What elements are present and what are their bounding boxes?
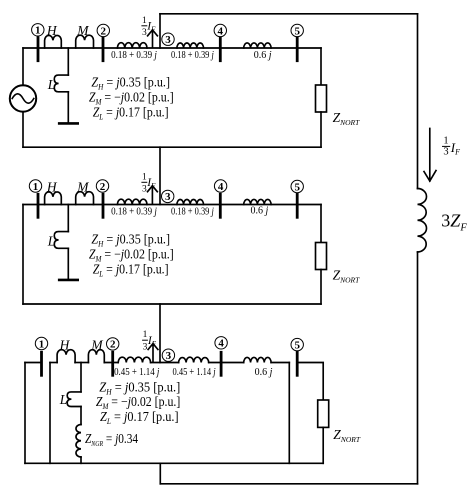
- bus bar node 1: [37, 38, 40, 61]
- wire right rail lower: [417, 252, 419, 484]
- wire node4 segment: [209, 362, 244, 364]
- generator G1: [10, 85, 36, 111]
- svg-text:1: 1: [443, 136, 448, 147]
- svg-text:2: 2: [110, 339, 116, 351]
- wire fault tap riser (node 3 to top rail): [159, 14, 161, 48]
- bus bar node 5: [296, 38, 299, 61]
- svg-text:1: 1: [142, 16, 147, 26]
- svg-text:2: 2: [101, 25, 107, 37]
- inductor line 2-3 (0.18+0.39j): [117, 43, 147, 48]
- svg-text:5: 5: [294, 25, 300, 37]
- node label circle 5 (bot): [291, 338, 303, 350]
- svg-text:ZL = j0.17 [p.u.]: ZL = j0.17 [p.u.]: [93, 105, 169, 122]
- svg-text:3: 3: [165, 34, 171, 46]
- svg-text:L: L: [47, 77, 56, 92]
- wire Znort to bottom rail: [320, 112, 322, 147]
- resistor Znort (top): [316, 85, 327, 112]
- node label circle 5 (mid): [291, 180, 303, 192]
- wire L to NGR: [80, 407, 82, 425]
- wire to H winding: [50, 362, 57, 364]
- svg-text:0.18 + 0.39 j: 0.18 + 0.39 j: [171, 206, 214, 217]
- svg-text:3: 3: [142, 184, 147, 194]
- wire middle bottom rail: [23, 303, 321, 305]
- resistor Znort (bot): [318, 400, 329, 427]
- arrow 1/3 If (mid, up): [148, 186, 158, 204]
- arrow 1/3 If (top, up): [148, 30, 158, 47]
- wire outer bottom rail: [160, 483, 417, 485]
- wire right delta drop to reference: [288, 363, 290, 464]
- wire H-M junction drop: [67, 48, 69, 75]
- svg-text:1: 1: [39, 338, 45, 350]
- node label circle 2 (bot): [107, 338, 119, 350]
- svg-text:ZL = j0.17 [p.u.]: ZL = j0.17 [p.u.]: [100, 409, 179, 426]
- wire top main bus line: [23, 47, 321, 49]
- inductor 3Zf coil: [418, 189, 427, 253]
- wire top rail: [160, 13, 418, 15]
- svg-text:0.18 + 0.39 j: 0.18 + 0.39 j: [171, 50, 214, 61]
- node label circle 5 (top): [291, 24, 303, 36]
- svg-text:M: M: [90, 338, 103, 353]
- inductor line 3-4 (0.45+1.14j): [179, 357, 209, 362]
- wire bottom reference rail: [25, 462, 323, 464]
- inductor line 2-3 (0.18+0.39j) (mid): [117, 199, 147, 204]
- wire interconnect middle-to-bottom: [159, 304, 161, 363]
- svg-text:0.6 j: 0.6 j: [254, 50, 272, 61]
- svg-text:3: 3: [165, 191, 171, 203]
- svg-text:4: 4: [218, 338, 224, 350]
- svg-text:M: M: [76, 23, 89, 38]
- bus bar node 2 (bot): [111, 352, 114, 375]
- winding H (top): [45, 35, 62, 48]
- winding H (bot): [57, 350, 75, 363]
- wire L junction drop (bot): [80, 363, 82, 392]
- wire L to ground (mid): [67, 248, 69, 280]
- bus bar node 5 (mid): [296, 194, 299, 217]
- wire bus1 stub: [25, 362, 42, 364]
- wire Znort to reference rail (bot): [322, 427, 324, 463]
- node label circle 2 (top): [97, 24, 109, 36]
- wire interconnect top-to-middle: [159, 147, 161, 204]
- winding M (mid): [76, 192, 94, 205]
- node label circle 3 (bot): [162, 349, 174, 361]
- wire 0.6j to delta drop: [271, 362, 289, 364]
- bus bar node 2 (mid): [102, 194, 105, 217]
- inductor line 3-4 (0.18+0.39j) (mid): [177, 199, 204, 204]
- ground (top network): [59, 122, 77, 125]
- winding M (top): [76, 35, 94, 48]
- wire generator top lead: [22, 48, 24, 85]
- wire M to bus 2: [104, 362, 118, 364]
- bus bar node 1 (mid): [37, 194, 40, 217]
- svg-text:4: 4: [218, 181, 224, 193]
- svg-text:3: 3: [142, 28, 147, 38]
- node label circle 1 (top): [32, 24, 44, 36]
- node label circle 3 (mid): [162, 190, 174, 202]
- wire node5 to Znort (mid): [320, 205, 322, 243]
- svg-text:L: L: [47, 234, 56, 249]
- wire H-M junction drop (mid): [67, 205, 69, 232]
- winding L (bot): [67, 392, 81, 407]
- node label circle 4 (mid): [214, 180, 226, 192]
- inductor line 3-4 (0.18+0.39j): [177, 43, 204, 48]
- svg-text:1: 1: [142, 172, 147, 182]
- svg-text:L: L: [59, 392, 68, 407]
- svg-text:1: 1: [143, 330, 148, 340]
- arrow 1/3 If (fault, down): [424, 129, 436, 182]
- inductor 4-5 (0.6j): [244, 43, 271, 48]
- wire delta drop (H side to reference): [49, 363, 51, 464]
- wire Znort to bottom rail (mid): [320, 270, 322, 305]
- svg-text:H: H: [59, 338, 71, 353]
- bus bar node 4: [219, 38, 222, 61]
- inductor 4-5 (0.6j) (mid): [244, 199, 271, 204]
- generator sine wave: [12, 94, 34, 103]
- svg-text:3: 3: [443, 146, 448, 157]
- svg-text:3: 3: [143, 342, 148, 352]
- wire node5 to Znort (bot): [297, 363, 323, 401]
- wire bottom left drop: [24, 363, 26, 464]
- svg-text:0.6 j: 0.6 j: [255, 367, 273, 378]
- svg-text:ZL = j0.17 [p.u.]: ZL = j0.17 [p.u.]: [93, 261, 169, 278]
- bus bar node 1 (bot): [40, 352, 43, 375]
- winding H (mid): [45, 192, 62, 205]
- winding M (bot): [88, 350, 104, 363]
- wire H to M segment: [75, 362, 88, 364]
- node label circle 1 (bot): [35, 337, 47, 349]
- bus bar node 5 (bot): [296, 352, 299, 375]
- svg-text:3: 3: [166, 350, 172, 362]
- wire NGR to reference rail: [80, 457, 82, 463]
- node label circle 4 (bot): [215, 337, 227, 349]
- wire generator bottom lead: [22, 112, 24, 148]
- svg-text:H: H: [46, 23, 58, 38]
- arrow 1/3 If (bot, up): [148, 344, 158, 362]
- svg-text:0.18 + 0.39 j: 0.18 + 0.39 j: [111, 50, 157, 61]
- svg-text:M: M: [76, 180, 89, 195]
- winding L (mid): [54, 232, 68, 249]
- svg-text:5: 5: [294, 339, 300, 351]
- wire coil1 to coil2 through node 3: [151, 362, 179, 364]
- svg-text:5: 5: [294, 181, 300, 193]
- bus bar node 4 (bot): [220, 352, 223, 375]
- svg-text:0.6 j: 0.6 j: [251, 206, 269, 217]
- inductor Zngr coil: [76, 425, 81, 458]
- wire right rail upper: [417, 14, 419, 189]
- wire step to outer rail: [159, 463, 161, 484]
- svg-text:0.45 + 1.14 j: 0.45 + 1.14 j: [114, 367, 159, 378]
- svg-text:2: 2: [100, 181, 106, 193]
- node label circle 3 (top): [162, 33, 174, 45]
- inductor 4-5 (0.6j) (bot): [244, 357, 271, 362]
- bus bar node 2: [102, 38, 105, 61]
- wire top network bottom rail: [23, 146, 321, 148]
- wire node5 to Znort: [320, 48, 322, 85]
- svg-text:4: 4: [218, 25, 224, 37]
- svg-text:0.45 + 1.14 j: 0.45 + 1.14 j: [173, 367, 216, 378]
- wire middle main bus line: [23, 204, 321, 206]
- winding L (top): [54, 75, 68, 92]
- svg-text:1: 1: [35, 25, 41, 37]
- ground (mid network): [59, 279, 77, 282]
- svg-text:H: H: [46, 180, 58, 195]
- wire middle left drop: [22, 205, 24, 305]
- inductor line 2-3 (0.45+1.14j): [118, 357, 150, 362]
- node label circle 4 (top): [214, 24, 226, 36]
- resistor Znort (mid): [316, 243, 327, 270]
- svg-text:0.18 + 0.39 j: 0.18 + 0.39 j: [111, 206, 157, 217]
- bus bar node 4 (mid): [219, 194, 222, 217]
- node label circle 1 (mid): [29, 180, 41, 192]
- node label circle 2 (mid): [96, 180, 108, 192]
- svg-text:1: 1: [33, 181, 39, 193]
- wire L to ground: [67, 92, 69, 124]
